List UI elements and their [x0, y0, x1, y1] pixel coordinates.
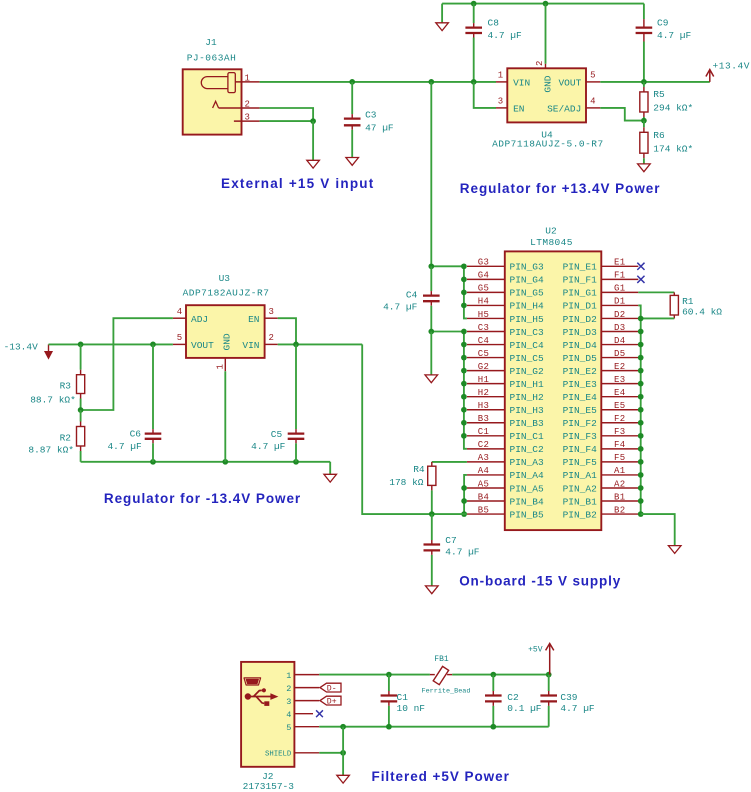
junction main wire at C3 — [349, 79, 355, 85]
connector J2 body — [241, 662, 294, 767]
svg-text:PIN_C2: PIN_C2 — [510, 444, 545, 455]
junction right bus at E4 — [638, 394, 644, 400]
svg-text:PIN_B4: PIN_B4 — [510, 496, 545, 507]
svg-text:PIN_D1: PIN_D1 — [563, 301, 598, 312]
svg-text:PIN_F2: PIN_F2 — [563, 418, 598, 429]
svg-text:+5V: +5V — [528, 646, 543, 655]
svg-text:PIN_F3: PIN_F3 — [563, 431, 598, 442]
svg-text:ADJ: ADJ — [191, 314, 208, 325]
svg-text:SHIELD: SHIELD — [265, 750, 292, 758]
junction J1 pins 2-3 — [310, 118, 316, 124]
junction right bus at F4 — [638, 446, 644, 452]
junction right bus at D2 — [638, 316, 644, 322]
svg-text:D-: D- — [327, 685, 337, 694]
svg-text:Ferrite_Bead: Ferrite_Bead — [422, 688, 471, 696]
U3 pin 2 VIN — [265, 343, 278, 345]
svg-text:1: 1 — [498, 71, 503, 81]
left bus C3-C2 — [464, 332, 467, 449]
svg-text:R2: R2 — [60, 433, 72, 444]
ground right end of U3 rail — [324, 474, 337, 482]
svg-text:R1: R1 — [682, 296, 694, 307]
svg-text:B1: B1 — [614, 492, 626, 502]
ground top-left of U4 — [436, 23, 449, 31]
svg-text:2173157-3: 2173157-3 — [243, 781, 295, 792]
junction right bus at D3 — [638, 329, 644, 335]
svg-text:H1: H1 — [478, 375, 490, 385]
power flag -13.4V — [45, 344, 52, 358]
svg-text:PIN_D4: PIN_D4 — [563, 340, 598, 351]
J1 pin 3 — [234, 120, 260, 122]
J1 pin 2 — [219, 107, 260, 109]
svg-text:5: 5 — [590, 71, 595, 81]
svg-text:C3: C3 — [478, 323, 490, 333]
svg-text:On-board -15 V supply: On-board -15 V supply — [459, 574, 621, 589]
U2 right pin E4 (PIN_E4) — [563, 388, 639, 403]
svg-text:10 nF: 10 nF — [397, 703, 426, 714]
svg-text:PIN_C3: PIN_C3 — [510, 327, 545, 338]
svg-text:88.7 kΩ*: 88.7 kΩ* — [30, 394, 76, 405]
svg-text:C4: C4 — [406, 290, 418, 301]
junction rail at C5 — [293, 459, 299, 465]
svg-text:C2: C2 — [507, 692, 519, 703]
U2 left pin G5 (PIN_G5) — [467, 284, 544, 299]
junction at C39/+5V — [546, 672, 552, 678]
U2 right pin D1 (PIN_D1) — [563, 297, 639, 312]
junction VOUT at R3 — [78, 342, 84, 348]
svg-text:F2: F2 — [614, 414, 626, 424]
junction right bus at B2 — [638, 511, 644, 517]
junction R5-R6 node — [641, 118, 647, 124]
U2 right pin D3 (PIN_D3) — [563, 323, 639, 338]
svg-text:EN: EN — [513, 103, 524, 114]
U2 right pin F1 (PIN_F1) — [563, 271, 639, 286]
junction main wire at long drop — [428, 79, 434, 85]
wire rail to top-left ground — [441, 4, 443, 23]
svg-text:D4: D4 — [614, 336, 626, 346]
J2 pin 1 — [294, 674, 319, 676]
capacitor C39 — [540, 675, 557, 727]
J2 pin 3 — [294, 700, 319, 702]
svg-text:G1: G1 — [614, 284, 626, 294]
ground below C7 — [426, 586, 439, 594]
junction right bus at F3 — [638, 433, 644, 439]
hierarchical label D+ — [320, 696, 341, 706]
svg-text:PJ-063AH: PJ-063AH — [187, 52, 237, 63]
svg-text:47 µF: 47 µF — [365, 122, 394, 133]
svg-text:F4: F4 — [614, 440, 626, 450]
U2 left pin C1 (PIN_C1) — [467, 427, 544, 442]
svg-text:B2: B2 — [614, 505, 626, 515]
svg-text:PIN_C5: PIN_C5 — [510, 353, 545, 364]
svg-text:E1: E1 — [614, 258, 626, 268]
wire U3 ADJ feedback — [81, 318, 173, 410]
capacitor C1 — [381, 675, 398, 727]
junction drop at G3 — [428, 263, 434, 269]
svg-text:4: 4 — [286, 710, 291, 720]
svg-text:1: 1 — [286, 671, 291, 681]
svg-text:1: 1 — [215, 364, 225, 369]
U2 right pin B2 (PIN_B2) — [563, 505, 639, 520]
capacitor C8 — [465, 4, 482, 82]
U4 pin 5 VOUT — [586, 81, 600, 83]
svg-text:F5: F5 — [614, 453, 626, 463]
svg-text:60.4 kΩ: 60.4 kΩ — [682, 307, 722, 318]
svg-text:2: 2 — [535, 61, 545, 66]
wire shield vertical to ground — [342, 727, 344, 776]
U2 right pin E5 (PIN_E5) — [563, 401, 639, 416]
svg-text:H4: H4 — [478, 297, 490, 307]
ferrite bead FB1 — [430, 666, 452, 684]
svg-text:PIN_D2: PIN_D2 — [563, 314, 598, 325]
wire U3 VIN — [278, 343, 363, 345]
svg-text:PIN_F4: PIN_F4 — [563, 444, 598, 455]
U2 right pin D4 (PIN_D4) — [563, 336, 639, 351]
svg-text:C5: C5 — [478, 349, 490, 359]
junction left bus at C4 — [461, 342, 467, 348]
wire left drop joins G3 — [431, 265, 464, 267]
junction right bus at F2 — [638, 420, 644, 426]
svg-text:B4: B4 — [478, 492, 490, 502]
bottom rail of U3 section — [81, 461, 331, 463]
svg-text:PIN_A2: PIN_A2 — [563, 483, 598, 494]
converter U2 body — [505, 251, 602, 530]
svg-text:PIN_B3: PIN_B3 — [510, 418, 545, 429]
svg-text:PIN_H2: PIN_H2 — [510, 392, 545, 403]
wire C4 line to ground — [430, 332, 432, 375]
J2 usb receptacle icon — [244, 678, 261, 685]
junction pin1 wire at C1 — [386, 672, 392, 678]
U2 right pin G1 (PIN_G1) — [563, 284, 639, 299]
svg-text:3: 3 — [268, 307, 273, 317]
U2 right pin F2 (PIN_F2) — [563, 414, 639, 429]
svg-text:3: 3 — [244, 113, 249, 123]
wire J2 pin5 rail — [319, 726, 548, 728]
svg-text:4.7 µF: 4.7 µF — [488, 30, 523, 41]
junction left bus at H1 — [461, 381, 467, 387]
U3 pin 4 ADJ — [173, 317, 186, 319]
wire U4 SE/ADJ to R5/R6 node — [600, 108, 644, 121]
svg-text:4.7 µF: 4.7 µF — [251, 441, 286, 452]
junction rail at U4 GND branch — [543, 1, 549, 7]
J2 pin 4 — [294, 713, 313, 715]
U2 right pin A1 (PIN_A1) — [563, 466, 639, 481]
ground below R6 — [638, 164, 651, 172]
svg-text:2: 2 — [268, 333, 273, 343]
svg-text:ADP7182AUJZ-R7: ADP7182AUJZ-R7 — [183, 288, 270, 299]
junction right bus at A1 — [638, 472, 644, 478]
J2 pin 2 — [294, 687, 319, 689]
svg-text:C8: C8 — [488, 17, 500, 28]
junction right bus at E2 — [638, 368, 644, 374]
junction VOUT wire at R5/C9 — [641, 79, 647, 85]
U2 left pin H2 (PIN_H2) — [467, 388, 544, 403]
wire B2 to ground — [641, 514, 675, 546]
wire to ground below J1 — [312, 121, 314, 160]
svg-text:GND: GND — [221, 333, 232, 350]
hierarchical label D- — [320, 683, 341, 693]
U2 right pin E3 (PIN_E3) — [563, 375, 639, 390]
svg-text:PIN_C4: PIN_C4 — [510, 340, 545, 351]
svg-text:4.7 µF: 4.7 µF — [657, 30, 692, 41]
U4 pin 3 EN — [496, 107, 507, 109]
svg-text:PIN_H4: PIN_H4 — [510, 301, 545, 312]
wire J2 pin1 to +5V node — [319, 674, 430, 676]
junction shield node — [340, 750, 346, 756]
svg-text:PIN_D3: PIN_D3 — [563, 327, 598, 338]
svg-text:A5: A5 — [478, 479, 490, 489]
svg-text:VIN: VIN — [513, 77, 530, 88]
junction left bus at G2 — [461, 368, 467, 374]
svg-text:4: 4 — [177, 307, 182, 317]
junction pin5 at C2 bottom — [490, 724, 496, 730]
svg-text:C39: C39 — [560, 692, 577, 703]
U2 right pin E1 (PIN_E1) — [563, 258, 639, 273]
svg-text:4.7 µF: 4.7 µF — [107, 441, 142, 452]
U2 left pin B5 (PIN_B5) — [467, 505, 544, 520]
wire J1 pin1 to VIN node — [260, 81, 496, 83]
no-connect X on J2 pin 4 — [316, 710, 323, 717]
ground below J1 — [307, 160, 320, 168]
svg-text:3: 3 — [286, 697, 291, 707]
regulator U3 body — [186, 305, 265, 358]
svg-text:U2: U2 — [545, 225, 557, 236]
svg-text:R4: R4 — [413, 464, 425, 475]
svg-text:LTM8045: LTM8045 — [530, 237, 573, 248]
svg-text:PIN_C1: PIN_C1 — [510, 431, 545, 442]
svg-text:174 kΩ*: 174 kΩ* — [653, 143, 693, 154]
U2 left pin A5 (PIN_A5) — [467, 479, 544, 494]
svg-text:EN: EN — [248, 314, 259, 325]
svg-text:PIN_F5: PIN_F5 — [563, 457, 598, 468]
U2 left pin C5 (PIN_C5) — [467, 349, 544, 364]
junction left bus at C5 — [461, 355, 467, 361]
junction left bus at B3 — [461, 420, 467, 426]
U4 pin 2 GND stub — [545, 64, 547, 69]
svg-text:B3: B3 — [478, 414, 490, 424]
resistor R2 — [77, 410, 85, 462]
left bus A4-B5 — [464, 475, 467, 514]
resistor R5 — [640, 82, 648, 121]
svg-text:4.7 µF: 4.7 µF — [560, 703, 595, 714]
svg-text:PIN_E2: PIN_E2 — [563, 366, 598, 377]
resistor R4 — [428, 462, 436, 514]
U2 right pin F5 (PIN_F5) — [563, 453, 639, 468]
svg-text:PIN_F1: PIN_F1 — [563, 275, 598, 286]
svg-text:8.87 kΩ*: 8.87 kΩ* — [28, 445, 74, 456]
svg-text:GND: GND — [542, 75, 553, 92]
svg-text:A2: A2 — [614, 479, 626, 489]
left bus G3-H5 — [464, 266, 467, 318]
svg-text:U3: U3 — [219, 273, 231, 284]
junction pin5 at C1 bottom — [386, 724, 392, 730]
svg-text:PIN_H5: PIN_H5 — [510, 314, 545, 325]
svg-text:PIN_E5: PIN_E5 — [563, 405, 598, 416]
U3 pin 5 VOUT — [173, 343, 186, 345]
capacitor C5 — [288, 344, 305, 461]
svg-text:PIN_G1: PIN_G1 — [563, 288, 598, 299]
junction right bus at E3 — [638, 381, 644, 387]
capacitor C3 — [344, 82, 361, 158]
U2 right pin B1 (PIN_B1) — [563, 492, 639, 507]
junction right bus at A2 — [638, 485, 644, 491]
junction B5 node at R4 — [429, 511, 435, 517]
U2 left pin A3 (PIN_A3) — [467, 453, 544, 468]
svg-text:2: 2 — [244, 100, 249, 110]
U2 left pin H4 (PIN_H4) — [467, 297, 544, 312]
svg-text:A1: A1 — [614, 466, 626, 476]
junction right bus at D4 — [638, 342, 644, 348]
svg-text:PIN_A3: PIN_A3 — [510, 457, 545, 468]
svg-text:PIN_A4: PIN_A4 — [510, 470, 545, 481]
svg-text:External +15 V input: External +15 V input — [221, 176, 374, 191]
power flag +5V — [546, 644, 554, 675]
junction left bus at C3 — [461, 329, 467, 335]
svg-text:B5: B5 — [478, 505, 490, 515]
junction main wire at C8 bottom — [471, 79, 477, 85]
ground below C3 — [346, 158, 359, 166]
svg-text:D3: D3 — [614, 323, 626, 333]
svg-text:C4: C4 — [478, 336, 490, 346]
top rail wire — [442, 3, 644, 5]
svg-text:FB1: FB1 — [434, 655, 449, 664]
U2 left pin C3 (PIN_C3) — [467, 323, 544, 338]
svg-text:G5: G5 — [478, 284, 490, 294]
wire long drop from main node to U2 — [430, 82, 432, 266]
svg-text:VOUT: VOUT — [191, 340, 214, 351]
junction VIN at C5/EN — [293, 342, 299, 348]
junction left bus at G3 — [461, 263, 467, 269]
right bus D1-B2 — [638, 305, 640, 514]
junction right bus at B1 — [638, 498, 644, 504]
svg-text:C7: C7 — [445, 535, 456, 546]
wire R1 bottom to D2 — [641, 317, 675, 319]
wire G1 to R1 top — [638, 291, 674, 293]
junction left bus at A5 — [461, 485, 467, 491]
svg-text:Regulator for +13.4V Power: Regulator for +13.4V Power — [460, 181, 661, 196]
svg-text:294 kΩ*: 294 kΩ* — [653, 102, 693, 113]
junction left bus at C1 — [461, 433, 467, 439]
U2 right pin D5 (PIN_D5) — [563, 349, 639, 364]
wire U3 GND to rail — [224, 371, 226, 462]
svg-text:VIN: VIN — [242, 340, 259, 351]
wire J1 pin3 — [260, 120, 314, 122]
svg-text:G4: G4 — [478, 271, 490, 281]
junction left bus at H2 — [461, 394, 467, 400]
svg-text:G3: G3 — [478, 258, 490, 268]
wire A3 to R4 — [432, 461, 467, 463]
junction rail at C8 — [471, 1, 477, 7]
svg-text:PIN_E4: PIN_E4 — [563, 392, 598, 403]
svg-text:PIN_B5: PIN_B5 — [510, 509, 545, 520]
U2 left pin G4 (PIN_G4) — [467, 271, 544, 286]
svg-text:5: 5 — [286, 723, 291, 733]
svg-text:-13.4V: -13.4V — [4, 342, 39, 353]
capacitor C9 — [636, 4, 653, 82]
wire U3 VIN down to -15V node — [362, 344, 432, 514]
svg-text:J1: J1 — [205, 37, 217, 48]
svg-text:PIN_G5: PIN_G5 — [510, 288, 545, 299]
svg-text:A4: A4 — [478, 466, 490, 476]
J2 pin SHIELD — [294, 752, 319, 754]
junction right bus at F5 — [638, 459, 644, 465]
svg-text:H3: H3 — [478, 401, 490, 411]
U2 left pin B3 (PIN_B3) — [467, 414, 544, 429]
svg-text:PIN_G4: PIN_G4 — [510, 275, 545, 286]
ground below B2 — [668, 546, 681, 554]
U2 right pin E2 (PIN_E2) — [563, 362, 639, 377]
connector J1 body — [183, 69, 242, 134]
svg-text:PIN_G3: PIN_G3 — [510, 262, 545, 273]
svg-text:ADP7118AUJZ-5.0-R7: ADP7118AUJZ-5.0-R7 — [492, 139, 604, 150]
svg-text:C1: C1 — [478, 427, 490, 437]
J2 usb trident icon — [245, 688, 279, 706]
svg-text:PIN_H1: PIN_H1 — [510, 379, 545, 390]
junction left bus at G5 — [461, 290, 467, 296]
capacitor C2 — [485, 675, 502, 727]
svg-text:PIN_B2: PIN_B2 — [563, 509, 598, 520]
ground below C4 — [425, 375, 438, 383]
wire FB1 to +5V flag node — [452, 674, 549, 676]
svg-text:0.1 µF: 0.1 µF — [507, 703, 542, 714]
junction left bus at B5 — [461, 511, 467, 517]
svg-text:VOUT: VOUT — [558, 77, 581, 88]
junction right bus at D5 — [638, 355, 644, 361]
junction at C2 top — [490, 672, 496, 678]
U2 left pin C2 (PIN_C2) — [467, 440, 544, 455]
wire J1 pin2 down — [260, 108, 314, 121]
regulator U4 body — [507, 68, 586, 122]
U4 pin 4 SE/ADJ — [586, 107, 600, 109]
svg-text:4.7 µF: 4.7 µF — [445, 547, 480, 558]
junction left bus at H3 — [461, 407, 467, 413]
svg-text:D1: D1 — [614, 297, 626, 307]
ground below J2 shield — [337, 775, 350, 783]
svg-text:G2: G2 — [478, 362, 490, 372]
svg-text:R5: R5 — [653, 89, 665, 100]
svg-text:3: 3 — [498, 97, 503, 107]
junction R3-R2-ADJ node — [78, 407, 84, 413]
wire U3 VOUT to -13.4V flag — [49, 343, 173, 345]
svg-text:PIN_D5: PIN_D5 — [563, 353, 598, 364]
U2 left pin C4 (PIN_C4) — [467, 336, 544, 351]
capacitor C6 — [145, 344, 162, 461]
resistor R6 — [640, 121, 648, 164]
svg-text:C5: C5 — [271, 429, 283, 440]
wire U3 EN branch — [278, 318, 296, 344]
svg-text:E3: E3 — [614, 375, 626, 385]
svg-text:Filtered +5V Power: Filtered +5V Power — [372, 769, 510, 784]
junction rail at C6 — [150, 459, 156, 465]
svg-text:SE/ADJ: SE/ADJ — [547, 103, 581, 114]
U2 left pin H3 (PIN_H3) — [467, 401, 544, 416]
junction left bus at B4 — [461, 498, 467, 504]
svg-text:C6: C6 — [130, 429, 142, 440]
svg-text:R3: R3 — [60, 381, 72, 392]
resistor R3 — [77, 344, 85, 410]
U2 left pin H5 (PIN_H5) — [467, 310, 544, 325]
junction right bus at E5 — [638, 407, 644, 413]
U2 right pin F4 (PIN_F4) — [563, 440, 639, 455]
wire rail to U4 GND pin — [545, 4, 547, 64]
U3 pin 3 EN — [265, 317, 278, 319]
svg-text:PIN_G2: PIN_G2 — [510, 366, 545, 377]
wire C4 bottom joins C3 pin — [431, 331, 464, 333]
svg-text:H2: H2 — [478, 388, 490, 398]
svg-text:C1: C1 — [397, 692, 409, 703]
junction C4 line at C3 row — [428, 329, 434, 335]
wire U4 VOUT to +13.4V — [600, 81, 710, 83]
capacitor C7 — [424, 514, 441, 586]
